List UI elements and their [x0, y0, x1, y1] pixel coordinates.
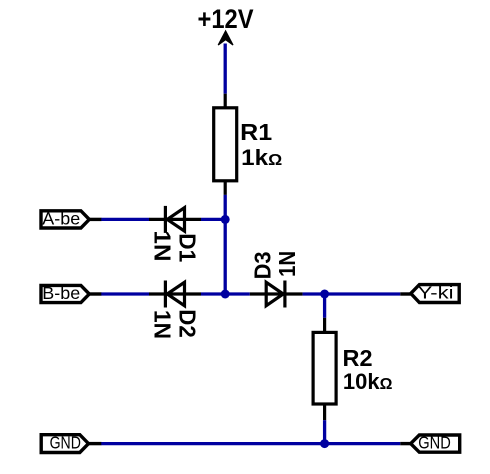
resistor R2	[313, 318, 336, 420]
junction A	[221, 215, 230, 224]
resistor R1	[214, 94, 237, 195]
diode D1	[149, 206, 201, 233]
terminal GND right	[400, 433, 459, 453]
junction B	[221, 290, 230, 299]
wire GND rail	[101, 442, 400, 445]
wire +12V to R1	[224, 44, 227, 94]
svg-text:1N: 1N	[150, 231, 176, 262]
power arrow	[218, 31, 233, 45]
svg-text:D2: D2	[174, 309, 200, 338]
svg-text:Y-ki: Y-ki	[418, 282, 454, 302]
svg-text:1N: 1N	[274, 251, 300, 277]
terminal A-be	[41, 208, 102, 228]
wire R1 to junction B	[224, 195, 227, 294]
wire D1 to junction A	[201, 218, 225, 221]
terminal B-be	[41, 283, 102, 303]
svg-text:B-be: B-be	[42, 283, 80, 303]
junction Y	[320, 290, 329, 299]
wire D3 to Y-ki	[303, 292, 401, 295]
terminal GND left	[41, 432, 101, 452]
svg-text:R1: R1	[240, 119, 272, 145]
svg-text:D3: D3	[250, 251, 276, 279]
svg-text:+12V: +12V	[198, 4, 254, 34]
diode D2	[149, 281, 201, 308]
svg-text:A-be: A-be	[42, 208, 80, 228]
svg-text:GND: GND	[50, 432, 81, 452]
junction GND	[320, 439, 329, 448]
svg-text:D1: D1	[174, 233, 200, 262]
terminal Y-ki	[400, 282, 459, 302]
wire R2 to junction GND	[323, 420, 326, 443]
wire B-be to D2	[101, 292, 149, 295]
wire junction Y to R2	[323, 294, 326, 318]
svg-text:GND: GND	[418, 433, 451, 453]
svg-text:1N: 1N	[150, 310, 176, 339]
diode D3	[250, 281, 303, 308]
wire A-be to D1	[101, 218, 149, 221]
wire D2 to junction B	[201, 292, 250, 295]
svg-text:R2: R2	[343, 345, 373, 371]
